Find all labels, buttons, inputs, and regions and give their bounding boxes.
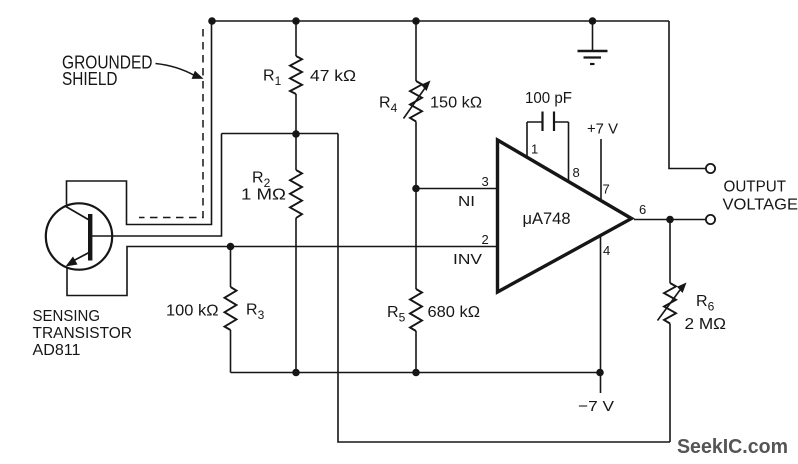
svg-text:3: 3 [482, 174, 489, 189]
svg-text:R6: R6 [696, 293, 715, 314]
node top rail / R1 junction [292, 17, 300, 25]
wire emitter path to INV input [67, 247, 497, 296]
svg-text:R5: R5 [387, 304, 406, 325]
svg-text:R1: R1 [263, 68, 282, 89]
svg-text:VOLTAGE: VOLTAGE [723, 197, 798, 214]
svg-text:2 MΩ: 2 MΩ [685, 316, 727, 333]
wire R3 top lead [230, 247, 232, 288]
wire R6 top lead [669, 220, 671, 284]
wire R6 bottom lead [669, 324, 671, 443]
svg-text:R4: R4 [379, 95, 398, 116]
svg-text:1 MΩ: 1 MΩ [241, 187, 286, 204]
wire base lead to feedback node [92, 134, 222, 237]
wire output pin 6 to lower terminal [634, 219, 705, 221]
svg-text:AD811: AD811 [33, 342, 81, 359]
resistor R3 100k body [225, 287, 237, 330]
resistor R1 47k body [290, 56, 302, 94]
svg-text:7: 7 [603, 182, 610, 197]
svg-text:150 kΩ: 150 kΩ [430, 95, 482, 112]
svg-text:TRANSISTOR: TRANSISTOR [33, 325, 133, 342]
wire right drop to upper output terminal [669, 21, 705, 169]
transistor Q1 base bar [88, 214, 92, 261]
rheostat R4 arrow [404, 81, 431, 119]
svg-text:NI: NI [458, 193, 475, 210]
svg-text:680 kΩ: 680 kΩ [428, 304, 481, 321]
grounded shield pointer arrow [156, 64, 204, 79]
node NI junction [412, 185, 420, 193]
svg-text:6: 6 [639, 202, 646, 217]
upper output terminal [706, 164, 715, 173]
resistor R5 680k body [410, 289, 422, 331]
svg-text:4: 4 [603, 243, 610, 258]
transistor Q1 collector stroke [65, 206, 90, 221]
svg-text:SeekIC.com: SeekIC.com [677, 435, 788, 458]
svg-text:INV: INV [453, 251, 482, 268]
wire R4 bottom lead to NI node [415, 122, 417, 189]
wire pin 4 supply stub [600, 236, 602, 393]
rheostat R6 arrow [658, 283, 687, 321]
wire R2 top lead [295, 134, 297, 170]
node rail1 / R5 junction [412, 369, 420, 377]
svg-text:100 pF: 100 pF [525, 90, 572, 107]
svg-text:SENSING: SENSING [33, 308, 101, 325]
svg-text:2: 2 [482, 232, 489, 247]
node top rail / R4 junction [412, 17, 420, 25]
wire R4 top lead [415, 21, 417, 81]
svg-text:47 kΩ: 47 kΩ [310, 68, 356, 85]
wire top supply rail [212, 20, 669, 22]
svg-text:1: 1 [531, 142, 538, 157]
wire ground rail 1 [231, 372, 601, 374]
node R1-R2 feedback junction [292, 130, 300, 138]
transistor Q1 AD811 circle [46, 203, 112, 269]
svg-text:μA748: μA748 [523, 209, 571, 228]
node output junction [666, 216, 674, 224]
capacitor C1 100pF [527, 112, 569, 181]
node rail1 / R2 junction [292, 369, 300, 377]
node emitter / R3 junction [227, 243, 235, 251]
wire collector shield path: circle top up, right, down, right, up to top rail [67, 21, 212, 225]
wire NI input [416, 188, 497, 190]
op-amp U1 triangle [498, 140, 632, 292]
svg-text:SHIELD: SHIELD [62, 69, 118, 89]
wire R5 bottom lead [415, 331, 417, 373]
svg-text:+7 V: +7 V [587, 121, 618, 138]
rheostat R6 2M body [664, 283, 676, 324]
wire R2 top rail [222, 133, 339, 135]
node top rail / collector junction [208, 17, 216, 25]
grounded-shield dashed line [139, 29, 203, 218]
lower output terminal [706, 215, 715, 224]
wire feedback drop x=338 and bottom rail 2 [338, 134, 670, 443]
svg-text:−7 V: −7 V [578, 398, 614, 415]
node rail1 / -7V junction [596, 369, 604, 377]
wire R1 bottom lead [295, 94, 297, 134]
wire R3 bottom lead [230, 330, 232, 373]
svg-text:R3: R3 [246, 302, 265, 323]
transistor Q1 emitter stroke with arrow [66, 252, 91, 267]
ground symbol [578, 21, 608, 64]
rheostat R4 150k body [410, 81, 422, 122]
wire R2 bottom lead [295, 218, 297, 373]
wire pin 7 supply stub [600, 139, 602, 199]
node top rail / ground junction [589, 17, 597, 25]
wire NI node down to R5 [415, 189, 417, 290]
wire R1 top lead [295, 21, 297, 56]
svg-text:OUTPUT: OUTPUT [724, 179, 787, 196]
svg-text:100 kΩ: 100 kΩ [166, 303, 219, 320]
resistor R2 1M body [290, 170, 302, 218]
svg-text:8: 8 [573, 165, 580, 180]
